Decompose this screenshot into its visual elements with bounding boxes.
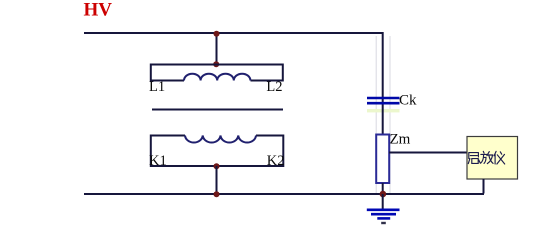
detector label 局放仪 glyph fang (481, 151, 494, 163)
svg-text:HV: HV (84, 0, 113, 21)
svg-text:K1: K1 (149, 153, 167, 169)
highlight artifact under capacitor (367, 109, 400, 112)
wire Ck branch upper segment (382, 32, 384, 135)
transformer primary winding L1-L2 outline (151, 65, 283, 81)
svg-text:Zm: Zm (390, 132, 411, 148)
wire Zm bottom segment (382, 183, 384, 194)
junction dot on bottom rail at K wire (214, 191, 220, 197)
svg-text:Ck: Ck (399, 93, 417, 109)
transformer secondary winding K1-K2 outline (151, 136, 283, 167)
svg-text:L2: L2 (266, 79, 282, 95)
measuring impedance Zm box (376, 135, 389, 184)
wire from K winding to bottom rail (216, 166, 218, 194)
wire Zm to detector (389, 152, 467, 154)
detector label 局放仪 glyph ju (468, 153, 480, 164)
transformer secondary coil (185, 136, 256, 143)
grid artifact line left of Ck/Zm branch (375, 36, 377, 193)
junction dot on L winding top (213, 61, 219, 67)
junction dot on K winding bottom (214, 163, 220, 169)
svg-text:L1: L1 (149, 79, 165, 95)
wire bottom rail (84, 193, 484, 195)
transformer core line (152, 109, 283, 111)
capacitor Ck plates (367, 98, 400, 103)
junction dot at ground node (380, 191, 387, 198)
partial discharge detector box (局放仪) (467, 137, 518, 180)
grid artifact line right of Ck/Zm branch (389, 36, 391, 193)
ground symbol (367, 210, 400, 219)
wire detector to bottom rail (483, 179, 485, 194)
svg-text:K2: K2 (267, 153, 285, 169)
wire top rail (84, 32, 384, 34)
ground symbol tip (381, 222, 386, 224)
ground stub (382, 194, 384, 209)
transformer primary coil (184, 74, 250, 81)
wire from top rail to L winding (216, 33, 218, 64)
junction dot on top rail (214, 31, 220, 37)
detector label 局放仪 glyph yi (494, 151, 505, 164)
